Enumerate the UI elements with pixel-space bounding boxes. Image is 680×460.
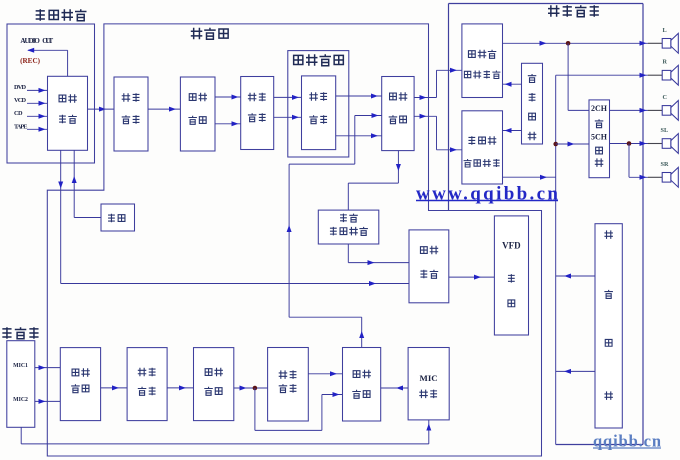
block mic board MIC1 MIC2 — [7, 341, 35, 428]
block 音量控制 mic-volume-control — [60, 348, 100, 421]
wire level-sample-amp to level-compare — [347, 244, 349, 263]
wire speaker SR line — [629, 176, 648, 178]
block 保护电路 protect-circuit — [522, 63, 543, 144]
junction dot R output — [553, 142, 558, 147]
speaker R — [662, 59, 678, 85]
wire input-select to volume-control — [88, 108, 115, 110]
wire mic-volume to mic-mixer1 — [101, 387, 128, 389]
wire R speaker line — [556, 74, 648, 76]
wire left-power-amp output to speaker L — [503, 42, 649, 44]
box left main-amp board outline — [7, 24, 95, 163]
svg-text:R: R — [663, 59, 668, 66]
wire protect to left-power-amp — [503, 83, 522, 85]
block 音量控制 volume-control — [114, 77, 148, 151]
speaker C — [662, 94, 678, 120]
wire switch to speaker C — [610, 109, 649, 111]
label 主功放板 (left main-amp board) — [36, 9, 45, 20]
block 静音 mute — [101, 204, 135, 231]
wire bypass under reverb to mic-mixer2 — [254, 388, 256, 430]
wire reverb to mic-mixer2 — [308, 373, 342, 375]
svg-text:2CH: 2CH — [591, 104, 608, 113]
wire input-select down to level-compare — [60, 150, 62, 283]
speaker SR — [661, 161, 679, 187]
junction dot SL line — [627, 141, 632, 146]
block 音调调节 tone-adjust — [241, 77, 274, 150]
block 输入选择 input-select — [48, 76, 88, 150]
wire mute to input-select — [74, 217, 101, 219]
wire right-power-amp output — [503, 176, 556, 178]
block 2CH和5CH切换 channel-switch — [589, 100, 610, 178]
speaker L — [662, 27, 678, 53]
speaker SL — [661, 127, 679, 153]
wire junction SL down to SR — [628, 144, 630, 178]
wire mic-board bottom to mic-mute — [20, 427, 22, 444]
wire mixer-amp to left-power-amp — [414, 97, 436, 99]
block 混合放大 mixer-amp main — [382, 77, 414, 151]
svg-text:CD: CD — [14, 110, 23, 117]
svg-text:TAPE: TAPE — [14, 123, 28, 130]
block 混合放大 mic-mixer2 — [343, 348, 381, 422]
box potentiometer-board outline — [288, 51, 349, 157]
wire mic-mute to mic-mixer2 — [381, 387, 408, 389]
wire MIC1 to mic-volume — [35, 367, 61, 369]
wire power bus vertical — [555, 75, 557, 444]
block 右声道功率放大 right-power-amp — [462, 111, 503, 184]
svg-text:SL: SL — [661, 127, 669, 134]
svg-text:DVD: DVD — [14, 84, 26, 91]
wire mixer-amp down to level-sample-amp — [397, 151, 399, 184]
svg-text:www.qqibb.cn: www.qqibb.cn — [416, 184, 558, 205]
block 缓冲放大 buffer-amp — [180, 77, 215, 151]
block 平衡控制 balance-control — [302, 76, 336, 150]
wire volume-control to buffer-amp — [148, 108, 180, 110]
wire power-supply upper feed — [556, 275, 595, 277]
wire MIC2 to mic-volume — [35, 400, 61, 402]
label 面控板 (panel control board) — [191, 28, 203, 40]
svg-text:SR: SR — [661, 161, 669, 168]
box panel-board outline polygon — [47, 24, 541, 456]
wire buffer-amp to tone-adjust R — [215, 123, 241, 125]
label 咪座板 (mic board) — [2, 327, 11, 339]
wire junction L down to 2ch-5ch switch — [567, 43, 569, 110]
block 左声道功率放大 left-power-amp — [462, 24, 503, 98]
label 主功放板 (right main-amp board) — [548, 5, 560, 16]
svg-text:VCD: VCD — [14, 97, 26, 104]
wire mic-tone to reverb — [234, 387, 268, 389]
block 混合放大 mic-mixer1 — [127, 348, 167, 421]
block 电平取样放大 level-sample-amp — [318, 210, 379, 244]
wire buffer-amp to tone-adjust L — [215, 96, 241, 98]
wire tone-adjust to balance L — [274, 96, 302, 98]
wire TAPE input — [27, 128, 48, 130]
svg-text:C: C — [663, 94, 667, 101]
wire tone-adjust to balance R — [274, 116, 302, 118]
svg-text:AUDIO: AUDIO — [20, 37, 40, 45]
svg-text:OUT: OUT — [42, 37, 53, 45]
wire switch to speaker SL — [610, 143, 649, 145]
junction dot L output — [566, 41, 571, 46]
block 混响处理 reverb-process — [268, 348, 309, 422]
wire power-supply lower feed — [556, 370, 595, 372]
block VFD 显示 vfd-display — [494, 216, 528, 335]
svg-text:VFD: VFD — [502, 241, 521, 251]
block 音调控制 mic-tone-control — [194, 348, 234, 421]
svg-text:MIC1: MIC1 — [13, 363, 28, 369]
wire mixer-amp to right-power-amp — [414, 115, 436, 117]
label 电位器板 (potentiometer board) — [294, 55, 303, 64]
block 供电电源 power-supply — [595, 224, 622, 428]
svg-text:(REC): (REC) — [20, 57, 41, 65]
wire audio-out with left arrow — [28, 49, 68, 51]
wire level-compare to VFD display — [449, 276, 495, 278]
svg-text:5CH: 5CH — [591, 133, 608, 142]
svg-text:MIC: MIC — [420, 373, 438, 383]
block 电平比较 level-compare — [409, 230, 449, 303]
wire CD input — [27, 115, 48, 117]
wire VCD input — [27, 102, 48, 104]
svg-text:L: L — [663, 27, 667, 34]
wire balance to mixer-amp L — [336, 95, 382, 97]
wire DVD input — [27, 89, 48, 91]
wire balance to mixer-amp R — [336, 135, 382, 137]
wire mic feedback to mixer-amp middle input — [361, 317, 363, 347]
wire junction R to 2ch-5ch switch — [556, 143, 589, 145]
block MIC静音 mic-mute — [408, 348, 449, 420]
svg-text:MIC2: MIC2 — [13, 397, 28, 403]
box right main-amp board outline — [449, 3, 644, 5]
junction dot mic-tone output — [253, 386, 258, 391]
wire protect to right-power-amp — [503, 130, 522, 132]
wire mic-mixer1 to mic-tone — [167, 387, 193, 389]
